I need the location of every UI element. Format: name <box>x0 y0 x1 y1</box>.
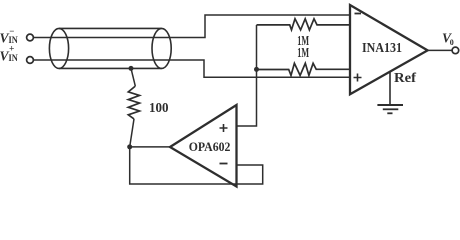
svg-text:100: 100 <box>149 101 169 116</box>
node shield tap <box>129 66 134 71</box>
svg-text:Ref: Ref <box>394 71 416 86</box>
label V_O <box>442 31 454 47</box>
input terminal V_IN+ <box>27 57 34 64</box>
wire feedback output to inverting input <box>130 147 263 184</box>
node OPA602 output <box>127 144 132 149</box>
svg-text:IN: IN <box>9 54 18 64</box>
svg-text:OPA602: OPA602 <box>189 140 231 154</box>
svg-text:1M: 1M <box>297 46 309 61</box>
wire INA131 output <box>428 49 453 51</box>
svg-text:0: 0 <box>450 38 454 47</box>
shielded cable <box>49 28 171 68</box>
wire shield to resistor <box>131 68 135 86</box>
op-amp OPA602 <box>170 105 237 187</box>
resistor R 1M top <box>257 19 351 30</box>
resistor R 1M bottom <box>257 63 351 75</box>
svg-text:INA131: INA131 <box>362 40 402 55</box>
wire Ref <box>389 72 391 105</box>
output terminal V_O <box>452 47 459 54</box>
label V_IN- <box>0 26 18 46</box>
label V_IN+ <box>0 45 18 65</box>
input terminal V_IN- <box>27 34 34 41</box>
in-amp INA131 <box>350 5 428 94</box>
wire V_IN+ to INA131 plus input <box>34 60 350 77</box>
wire V_IN- to INA131 minus input <box>34 15 350 38</box>
svg-text:+: + <box>9 45 14 55</box>
node guard common-mode <box>254 67 259 72</box>
wire OPA602 plus input to guard node <box>237 25 257 126</box>
ground <box>377 105 403 113</box>
wire node to OPA602 output apex <box>130 146 170 148</box>
svg-text:−: − <box>9 26 14 36</box>
resistor R 100 <box>128 86 139 119</box>
wire resistor to output node <box>130 119 134 147</box>
